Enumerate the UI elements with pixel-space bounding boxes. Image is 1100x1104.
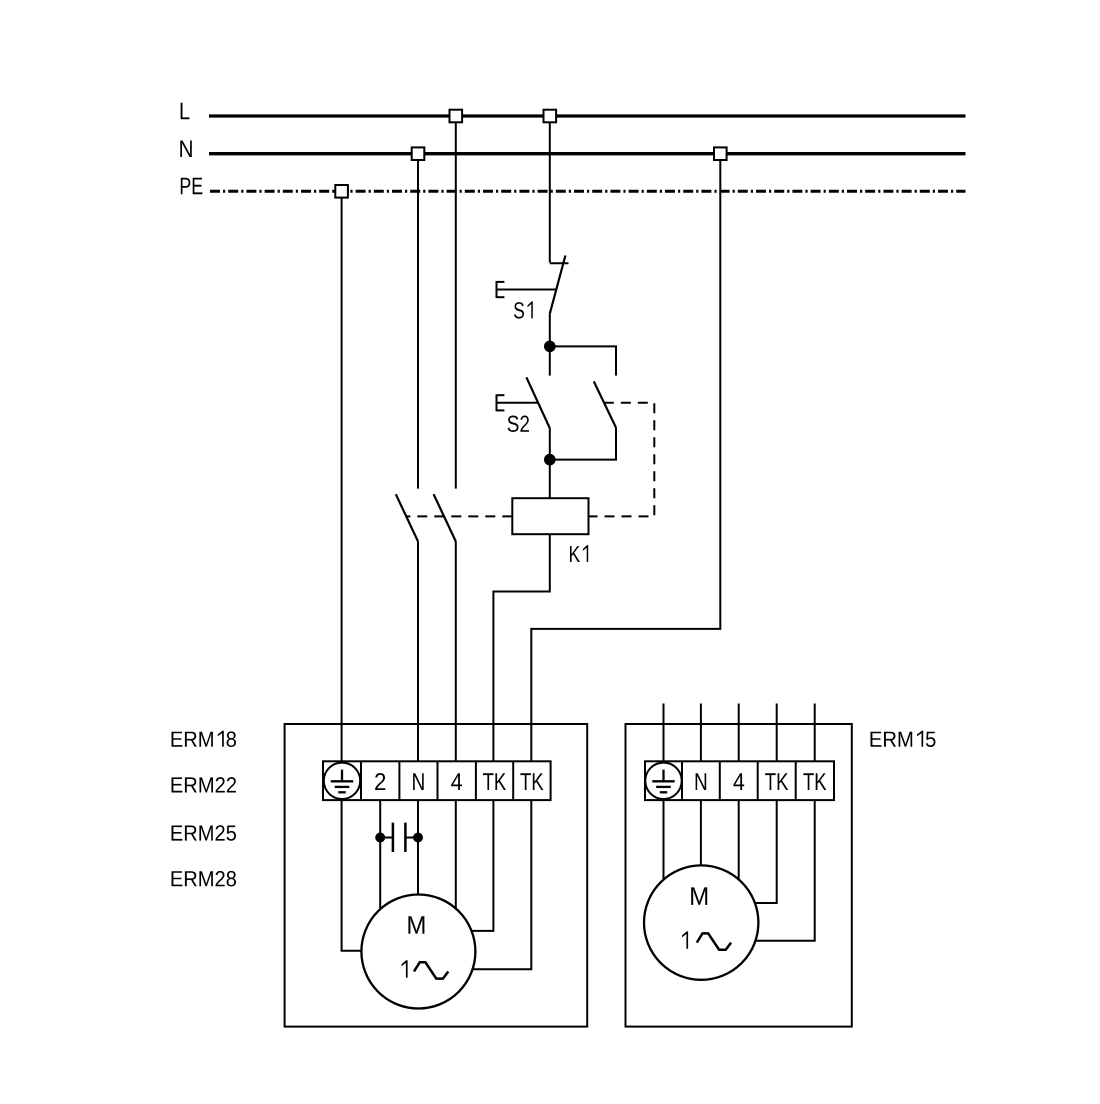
wire coil K1 to terminal TK1 (493, 534, 549, 761)
switch S1 fixed seat (550, 262, 569, 264)
mechanical linkage K1 aux dashed (589, 403, 655, 517)
wire N right to terminal TK2 (531, 160, 720, 761)
ground terminal left box (324, 763, 360, 799)
label M2 M (691, 887, 707, 905)
ground terminal right box (645, 763, 681, 799)
label M2 1 (682, 931, 688, 948)
label terminal TK2 left (520, 773, 543, 790)
switch S2 manual actuator (497, 394, 539, 411)
label terminal 4 left (451, 773, 462, 790)
label S2 (508, 416, 529, 433)
wire L to switch S1 (549, 122, 551, 262)
mechanical linkage K1 mains dashed (406, 515, 513, 517)
terminal tap on L left (450, 110, 463, 123)
wire PE to ground terminal (341, 198, 343, 762)
label terminal 4 right (733, 773, 744, 790)
capacitor C1 (375, 823, 423, 852)
enclosure box ERM15 right (626, 724, 852, 1027)
label ERM18 (172, 731, 237, 747)
net N (neutral rail) (209, 152, 966, 155)
switch S1 manual actuator (497, 281, 557, 298)
motor M2 circle (644, 865, 758, 979)
wire contact B to terminal 4 (455, 541, 457, 761)
terminal tap on PE (335, 185, 348, 198)
net PE (protective earth rail) (210, 190, 966, 193)
terminal strip right (645, 761, 834, 800)
terminal tap on L to S1 (544, 110, 557, 123)
label terminal TK2 right (803, 773, 826, 790)
terminal tap on N left (412, 147, 425, 160)
wire S2 to node B (549, 428, 551, 459)
wire node B to coil K1 (549, 460, 551, 499)
label ERM25 (172, 825, 237, 841)
label net N (180, 141, 192, 158)
switch S2 blade (526, 377, 549, 428)
wire S1 to node A (549, 314, 551, 347)
label M1 1 (402, 960, 408, 977)
motor M1 circle (361, 895, 475, 1009)
stub wire right terminal 5 (814, 704, 816, 762)
stub wire right terminal 3 (738, 704, 740, 762)
terminal tap on N right (714, 147, 727, 160)
wire terminal 4 to motor M1 (455, 800, 457, 909)
wire terminal 2 to capacitor (379, 800, 381, 837)
wire capacitor to motor M1 (379, 838, 381, 910)
node A junction (544, 341, 556, 353)
net L (phase rail) (209, 114, 966, 117)
enclosure box ERM left (285, 724, 588, 1027)
wire right 4 to motor M2 (738, 800, 740, 879)
wire L to contact K1-B (455, 122, 457, 488)
sine symbol M2 (697, 933, 731, 949)
coil K1 (512, 498, 588, 534)
wire right TK2 to motor M2 (756, 800, 815, 941)
wire right N to motor M2 (700, 800, 702, 865)
wire N to contact K1-A (417, 160, 419, 489)
wire right TK1 to motor M2 (755, 800, 777, 903)
stub wire right terminal 2 (700, 704, 702, 762)
label terminal TK1 right (765, 773, 788, 790)
wire ground terminal to motor M1 (342, 800, 362, 951)
wire right ground to motor M2 (663, 800, 665, 879)
label terminal 2 (375, 773, 385, 790)
label S1 (514, 302, 533, 319)
wire terminal TK1 to motor M1 (471, 800, 493, 931)
sine symbol M1 (414, 962, 448, 978)
label net PE (181, 178, 203, 195)
switch S1 blade (550, 256, 566, 314)
wire terminal N to motor M1 (417, 800, 419, 894)
label net L (181, 103, 190, 120)
contact K1 aux blade (594, 381, 616, 427)
stub wire right terminal 1 (663, 704, 665, 762)
wire node A to K1 aux (550, 346, 616, 375)
contact K1 main A (396, 494, 418, 541)
wire node A to S2 (549, 346, 551, 375)
label M1 M (408, 916, 424, 934)
wire contact A to terminal N (417, 541, 419, 761)
label ERM28 (172, 871, 237, 887)
contact K1 main B (434, 494, 456, 541)
label ERM15 (871, 731, 936, 747)
label ERM22 (172, 777, 237, 792)
label K1 (570, 545, 588, 562)
terminal strip left (323, 761, 551, 800)
node B junction (544, 454, 556, 466)
label terminal N right (696, 773, 707, 790)
wire K1 aux to node B (550, 428, 616, 460)
label terminal TK1 left (483, 773, 506, 790)
label terminal N left (413, 773, 424, 790)
wire terminal TK2 to motor M1 (472, 800, 531, 969)
stub wire right terminal 4 (776, 704, 778, 762)
